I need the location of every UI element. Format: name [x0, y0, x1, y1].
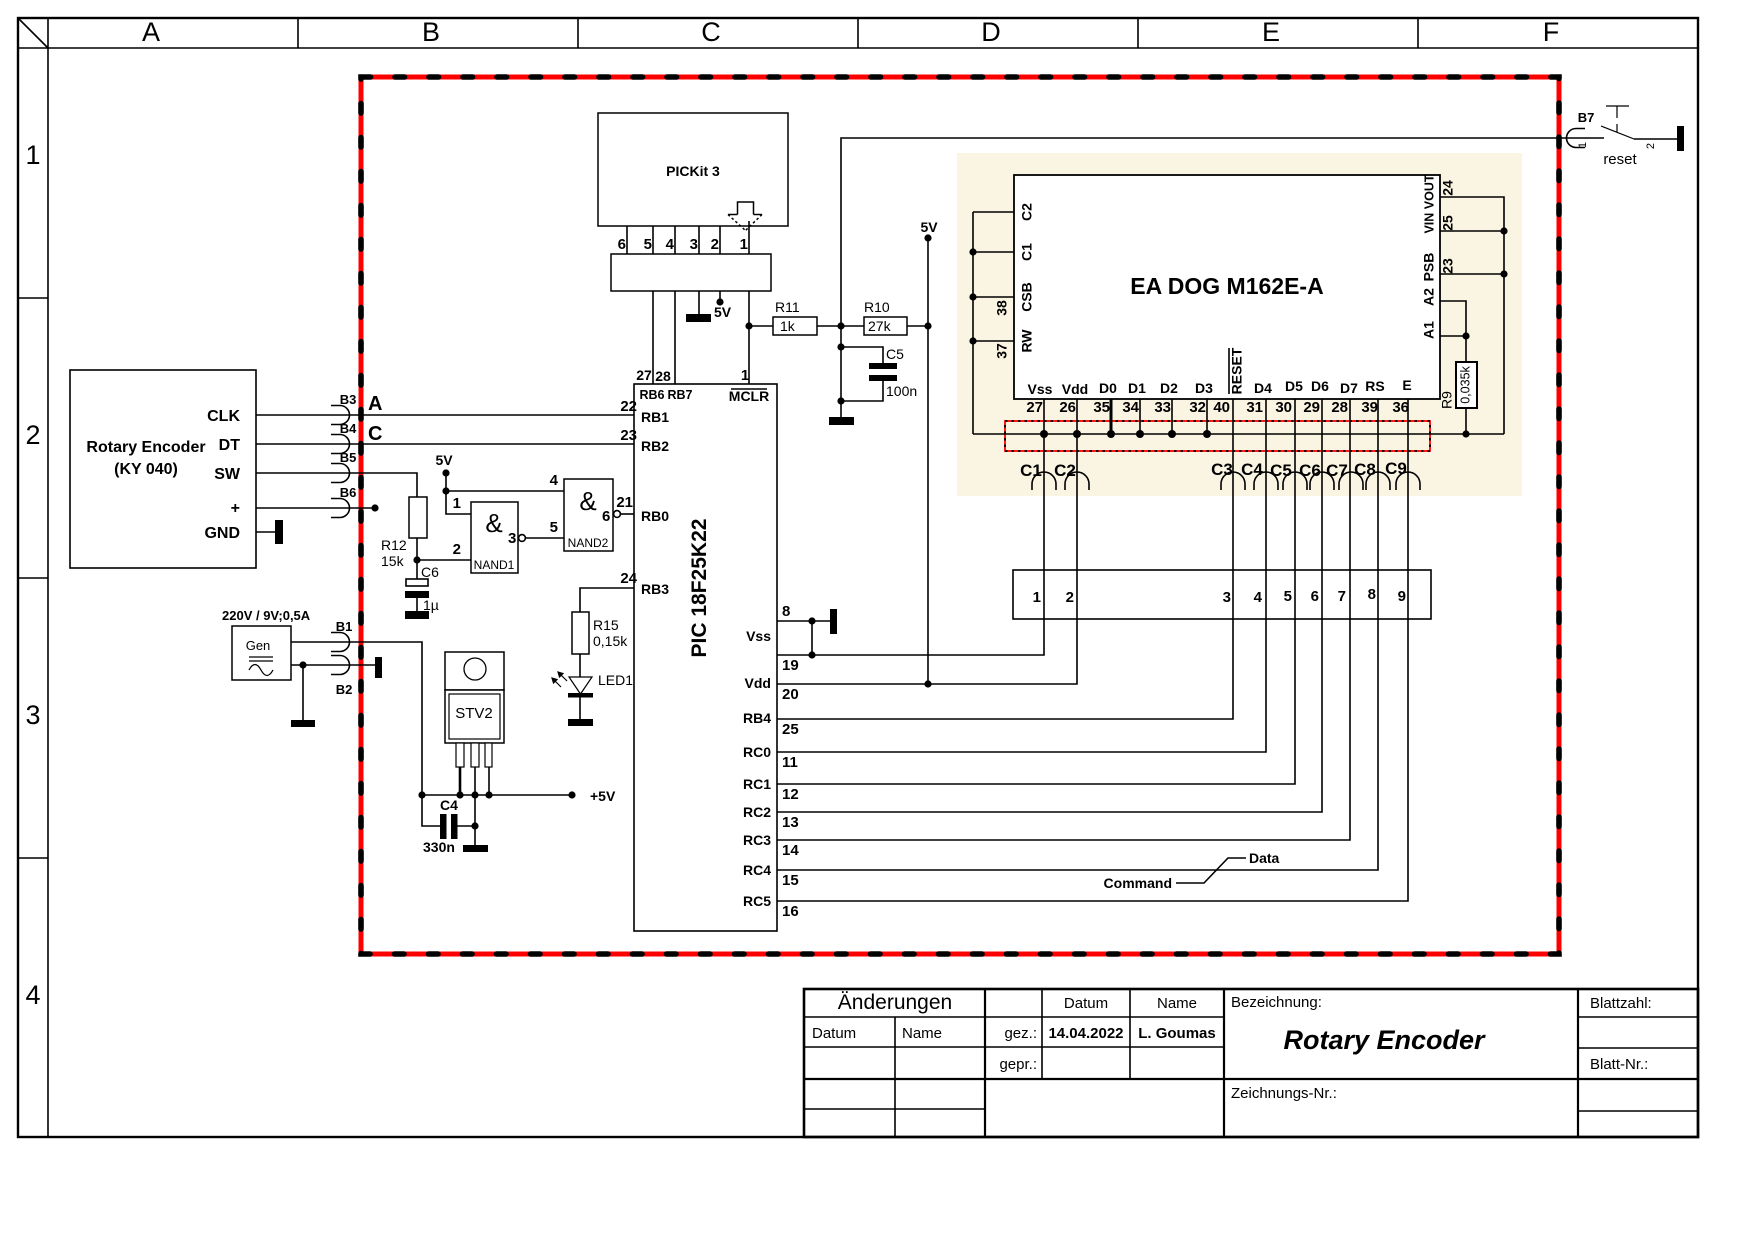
junction VIN: [1500, 227, 1507, 234]
wire B1 net to STV2 input: [291, 642, 422, 795]
wire C1 pin: [973, 251, 1014, 253]
svg-text:1: 1: [741, 367, 749, 384]
svg-text:4: 4: [1254, 589, 1263, 606]
wire C6 to ground: [416, 598, 418, 612]
svg-text:Vss: Vss: [1028, 381, 1053, 397]
svg-text:RC1: RC1: [743, 776, 771, 792]
NAND gate NAND1: [453, 495, 526, 573]
svg-text:2: 2: [25, 420, 40, 450]
svg-text:RB4: RB4: [743, 710, 771, 726]
wire R9 to bus: [1465, 408, 1467, 434]
svg-text:RC4: RC4: [743, 862, 771, 878]
svg-text:C1: C1: [1020, 461, 1042, 480]
connector strip 1-9: [1013, 570, 1431, 619]
svg-text:28: 28: [655, 368, 671, 384]
svg-text:16: 16: [782, 903, 799, 920]
junction pin19: [808, 651, 815, 658]
junction Vdd 5V rail: [924, 680, 931, 687]
ground C5: [829, 417, 854, 425]
svg-text:23: 23: [1440, 258, 1456, 274]
svg-text:5: 5: [1284, 588, 1292, 605]
svg-text:2: 2: [711, 236, 719, 253]
pushbutton B7 reset: [1567, 129, 1585, 148]
svg-text:2: 2: [453, 541, 461, 558]
connector B3: [331, 406, 350, 425]
svg-text:&: &: [485, 508, 502, 538]
resistor R12: [409, 497, 427, 538]
wire pin23 PSB: [1440, 273, 1504, 275]
svg-text:1µ: 1µ: [423, 597, 439, 613]
ground C4: [463, 845, 488, 852]
svg-text:C: C: [368, 423, 382, 445]
junction B2/gnd: [299, 661, 306, 668]
svg-text:C3: C3: [1211, 460, 1233, 479]
wire to C5 top plate: [841, 347, 883, 363]
regulator STV2: [445, 652, 504, 767]
wire RW pin: [973, 340, 1014, 342]
svg-text:+: +: [231, 500, 240, 517]
programmer PICkit 3: [598, 113, 788, 226]
junction bus D2: [1168, 430, 1176, 438]
wire D2 stub: [1171, 399, 1173, 434]
switch blade B7: [1601, 126, 1634, 139]
junction MCLR/R11: [745, 322, 752, 329]
svg-text:2: 2: [1066, 589, 1074, 606]
svg-text:5: 5: [550, 519, 558, 536]
wire B2 net: [291, 664, 375, 666]
wire C2 pin: [973, 211, 1014, 213]
svg-text:6: 6: [1311, 588, 1319, 605]
connector B2: [331, 656, 350, 675]
svg-text:F: F: [1543, 17, 1560, 47]
svg-text:D7: D7: [1340, 380, 1358, 396]
resistor R9: [1456, 362, 1477, 408]
wire A1: [1440, 335, 1466, 337]
junction CSB: [969, 293, 976, 300]
programmer connector strip: [611, 254, 771, 291]
svg-text:34: 34: [1122, 399, 1139, 416]
svg-text:C7: C7: [1326, 461, 1348, 480]
wire R11 to junction: [817, 325, 864, 327]
connector B1: [331, 633, 350, 652]
svg-text:Änderungen: Änderungen: [838, 991, 952, 1014]
svg-text:4: 4: [666, 236, 675, 253]
svg-text:B6: B6: [340, 485, 357, 500]
wire NAND1 out to NAND2 pin5: [526, 537, 564, 539]
svg-text:C2: C2: [1054, 461, 1076, 480]
wire display left gnd bus: [972, 212, 974, 434]
junction leg2: [471, 791, 478, 798]
wire MCLR to R11: [749, 325, 773, 327]
svg-text:15k: 15k: [381, 553, 405, 569]
svg-text:32: 32: [1189, 399, 1206, 416]
svg-text:RB3: RB3: [641, 581, 669, 597]
svg-text:36: 36: [1392, 399, 1409, 416]
svg-text:330n: 330n: [423, 839, 455, 855]
capacitor connector C8: [1366, 472, 1390, 490]
wire reset net to B7: [841, 138, 1604, 326]
svg-text:EA DOG M162E-A: EA DOG M162E-A: [1130, 273, 1323, 299]
junction R9 bus: [1462, 430, 1469, 437]
svg-text:C: C: [701, 17, 721, 47]
wire Vss pin8: [777, 620, 830, 622]
svg-text:RB6: RB6: [639, 388, 664, 402]
svg-text:100n: 100n: [886, 383, 917, 399]
svg-text:Blatt-Nr.:: Blatt-Nr.:: [1590, 1056, 1648, 1073]
junction C5 top: [837, 343, 844, 350]
wire R15 to LED1: [579, 654, 581, 677]
junction R12/C6/NAND1: [413, 556, 420, 563]
svg-text:C4: C4: [440, 797, 458, 813]
svg-text:31: 31: [1246, 399, 1263, 416]
svg-text:Blattzahl:: Blattzahl:: [1590, 995, 1652, 1012]
PICkit pin numbers: [618, 236, 748, 253]
junction C5 bottom: [837, 397, 844, 404]
wire RC4 net to connector 8: [777, 399, 1378, 870]
wire B7 pin2: [1634, 138, 1677, 140]
svg-text:C8: C8: [1354, 460, 1376, 479]
svg-text:29: 29: [1303, 399, 1320, 416]
svg-text:20: 20: [782, 686, 799, 703]
svg-text:Data: Data: [1249, 850, 1280, 866]
terminal bar B2: [375, 657, 382, 678]
wire D3 stub: [1206, 399, 1208, 434]
wire D1 stub: [1139, 399, 1141, 434]
capacitor C5: [869, 363, 897, 369]
display EA DOG M162E-A: [1014, 175, 1440, 399]
svg-text:Datum: Datum: [812, 1025, 856, 1042]
capacitor connector C9: [1396, 472, 1420, 490]
red dotted frame on gnd bus: [1005, 421, 1430, 451]
svg-text:1k: 1k: [780, 318, 796, 334]
wire A2: [1440, 301, 1466, 362]
svg-text:5: 5: [644, 236, 652, 253]
wire C4 to gnd junction: [457, 825, 475, 827]
wire R10 to 5V rail: [907, 325, 928, 327]
plunger B7: [1606, 106, 1629, 132]
svg-text:RB7: RB7: [667, 388, 692, 402]
junction leg3: [485, 791, 492, 798]
title block texts: [812, 991, 1652, 1102]
svg-text:6: 6: [602, 508, 610, 525]
junction PSB: [1500, 270, 1507, 277]
svg-text:RC0: RC0: [743, 744, 771, 760]
svg-text:A2: A2: [1421, 288, 1437, 306]
right side pin names: [743, 628, 771, 909]
wire gnd bus under display: [973, 433, 1504, 435]
display bottom pin numbers: [1026, 399, 1409, 416]
svg-text:Bezeichnung:: Bezeichnung:: [1231, 994, 1322, 1011]
svg-text:39: 39: [1361, 399, 1378, 416]
svg-text:27: 27: [636, 367, 652, 383]
svg-text:B3: B3: [340, 392, 357, 407]
wire STV2 legs: [460, 767, 489, 795]
svg-text:C4: C4: [1241, 460, 1263, 479]
wire Vdd net to connector 2: [777, 399, 1077, 684]
svg-text:1: 1: [25, 140, 40, 170]
junction + net end: [371, 504, 378, 511]
wire C5 bottom plate to gnd net: [841, 381, 883, 401]
connector B5: [331, 464, 350, 483]
svg-text:220V / 9V;0,5A: 220V / 9V;0,5A: [222, 608, 311, 623]
connector B6: [331, 499, 350, 518]
wire RC1 net to connector 5: [777, 399, 1295, 784]
svg-text:40: 40: [1213, 399, 1230, 416]
svg-text:3: 3: [25, 700, 40, 730]
svg-text:3: 3: [1223, 589, 1231, 606]
svg-text:Vdd: Vdd: [745, 675, 771, 691]
svg-text:26: 26: [1059, 399, 1076, 416]
svg-text:D0: D0: [1099, 380, 1117, 396]
svg-text:NAND1: NAND1: [474, 558, 515, 572]
wire encoder GND: [256, 531, 275, 533]
wire 5V rail down to Vdd: [927, 238, 929, 684]
ground C6: [405, 611, 429, 619]
rotary encoder U (KY 040): [70, 370, 256, 568]
wire CSB pin: [973, 296, 1014, 298]
junction R11/R10/reset net: [837, 322, 844, 329]
node 5V PICkit: [716, 298, 723, 305]
svg-text:gez.:: gez.:: [1004, 1025, 1037, 1042]
svg-text:CLK: CLK: [207, 408, 240, 425]
svg-text:R12: R12: [381, 537, 407, 553]
svg-text:21: 21: [616, 494, 633, 511]
wire net A (CLK to RB1): [256, 414, 634, 416]
svg-text:&: &: [579, 486, 596, 516]
svg-text:13: 13: [782, 814, 799, 831]
svg-text:B2: B2: [336, 682, 353, 697]
svg-text:STV2: STV2: [455, 705, 493, 722]
terminal bar encoder GND: [275, 520, 283, 544]
wire leg2 down: [474, 795, 476, 845]
junction B1/C4: [418, 791, 425, 798]
svg-text:15: 15: [782, 872, 799, 889]
svg-text:C5: C5: [1270, 461, 1292, 480]
svg-text:0,035k: 0,035k: [1458, 365, 1472, 403]
svg-text:Datum: Datum: [1064, 995, 1108, 1012]
ground LED1: [568, 719, 593, 726]
svg-text:30: 30: [1275, 399, 1292, 416]
svg-text:PIC 18F25K22: PIC 18F25K22: [688, 519, 711, 658]
svg-text:Name: Name: [902, 1025, 942, 1042]
resistor R11: [773, 317, 817, 335]
svg-text:7: 7: [1338, 588, 1346, 605]
junction C4/gnd: [471, 822, 478, 829]
junction bus D1: [1136, 430, 1144, 438]
wire SW net: [256, 473, 417, 497]
wire RC5 net to connector 9: [777, 399, 1408, 901]
svg-text:37: 37: [994, 343, 1010, 359]
wire D0 stub: [1110, 399, 1113, 434]
wire pin25 VIN: [1440, 230, 1504, 232]
svg-text:L. Goumas: L. Goumas: [1138, 1025, 1216, 1042]
capacitor connector C1: [1032, 472, 1056, 490]
svg-text:24: 24: [1440, 180, 1456, 196]
ground B2: [291, 720, 315, 727]
svg-text:Vdd: Vdd: [1062, 381, 1088, 397]
svg-text:28: 28: [1331, 399, 1348, 416]
svg-text:25: 25: [782, 721, 799, 738]
svg-text:23: 23: [620, 427, 637, 444]
svg-text:35: 35: [1093, 399, 1110, 416]
svg-text:C1: C1: [1019, 243, 1035, 261]
junction 5V/R10: [924, 322, 931, 329]
svg-text:9: 9: [1398, 588, 1406, 605]
LCD cream background panel: [957, 153, 1522, 496]
svg-text:12: 12: [782, 786, 799, 803]
frame column labels: [142, 17, 1559, 47]
svg-text:VIN VOUT: VIN VOUT: [1422, 174, 1436, 233]
node +5V: [568, 791, 575, 798]
svg-text:PSB: PSB: [1421, 253, 1437, 282]
svg-text:19: 19: [782, 657, 799, 674]
terminal bar Vss: [830, 609, 837, 634]
svg-text:Vss: Vss: [746, 628, 771, 644]
svg-text:C6: C6: [1299, 461, 1321, 480]
svg-text:14.04.2022: 14.04.2022: [1048, 1025, 1123, 1042]
resistor R10: [864, 317, 907, 335]
wire net C (DT to RB2): [256, 443, 634, 445]
wire pin24 VOUT: [1440, 197, 1504, 434]
wire R12 to C6 junction: [416, 538, 418, 580]
svg-text:RC2: RC2: [743, 804, 771, 820]
svg-text:4: 4: [25, 980, 40, 1010]
junction A1/A2: [1462, 332, 1469, 339]
arrow icon on PICkit: [728, 202, 762, 231]
svg-text:Gen: Gen: [246, 638, 271, 653]
wire RB6 from connector: [652, 291, 654, 384]
junction 5V branch: [442, 487, 449, 494]
svg-text:+5V: +5V: [590, 788, 616, 804]
svg-text:3: 3: [508, 530, 516, 547]
wire +5V line: [422, 794, 572, 796]
svg-text:D3: D3: [1195, 380, 1213, 396]
svg-text:4: 4: [550, 472, 559, 489]
svg-text:RS: RS: [1365, 378, 1384, 394]
svg-text:R10: R10: [864, 299, 890, 315]
svg-text:RC5: RC5: [743, 893, 771, 909]
svg-text:C9: C9: [1385, 459, 1407, 478]
svg-text:24: 24: [620, 570, 637, 587]
svg-text:A1: A1: [1421, 321, 1437, 339]
svg-text:SW: SW: [214, 466, 241, 483]
svg-text:E: E: [1262, 17, 1280, 47]
svg-text:1: 1: [1577, 142, 1589, 148]
wire NAND2 out to RB0: [620, 513, 634, 515]
svg-text:(KY 040): (KY 040): [114, 461, 178, 478]
junction bus Vss: [1040, 430, 1048, 438]
svg-text:27k: 27k: [868, 318, 892, 334]
junction bus D0: [1107, 430, 1115, 438]
svg-text:RC3: RC3: [743, 832, 771, 848]
svg-text:5V: 5V: [920, 219, 938, 235]
ground PICkit pin3: [686, 314, 711, 322]
svg-text:D6: D6: [1311, 378, 1329, 394]
LED LED1: [552, 672, 633, 698]
red/black dashed schematic border: [361, 77, 1559, 954]
wire pin2 to 5V: [719, 291, 721, 302]
svg-text:RESET: RESET: [1229, 347, 1245, 394]
wire Vss net to connector 1: [777, 399, 1044, 655]
svg-text:NAND2: NAND2: [568, 536, 609, 550]
wire RB4 net to connector 3: [777, 399, 1233, 719]
capacitor connector C4: [1254, 472, 1278, 490]
svg-text:GND: GND: [204, 525, 240, 542]
svg-text:gepr.:: gepr.:: [999, 1056, 1037, 1073]
svg-text:33: 33: [1154, 399, 1171, 416]
svg-text:C5: C5: [886, 346, 904, 362]
svg-text:11: 11: [782, 754, 798, 771]
svg-text:B7: B7: [1578, 110, 1595, 125]
svg-text:RB0: RB0: [641, 508, 669, 524]
svg-text:A: A: [368, 393, 382, 415]
svg-text:CSB: CSB: [1019, 282, 1035, 312]
svg-text:B: B: [422, 17, 440, 47]
capacitor connector C2: [1065, 472, 1089, 490]
junction pin8: [808, 617, 815, 624]
capacitor connector C3: [1221, 472, 1245, 490]
wire to ground: [840, 401, 842, 418]
capacitor C4: [440, 814, 447, 839]
svg-text:8: 8: [782, 603, 790, 620]
svg-text:reset: reset: [1603, 151, 1637, 168]
svg-text:B5: B5: [340, 450, 357, 465]
svg-text:C6: C6: [421, 564, 439, 580]
svg-text:D2: D2: [1160, 380, 1178, 396]
svg-text:D1: D1: [1128, 380, 1146, 396]
svg-text:C2: C2: [1019, 203, 1035, 221]
wire RC2 net to connector 6: [777, 399, 1322, 812]
wire 5V to NAND pins: [446, 473, 471, 514]
svg-text:Name: Name: [1157, 995, 1197, 1012]
wire RB3 to R15: [580, 588, 634, 612]
wire down to C4: [422, 795, 440, 826]
wire RC0 net to connector 4: [777, 399, 1266, 752]
svg-text:2: 2: [1645, 143, 1657, 149]
wire pin8 to pin19: [811, 621, 813, 655]
svg-text:R11: R11: [775, 299, 800, 315]
wire LED1 to ground: [579, 697, 581, 719]
junction RW: [969, 337, 976, 344]
svg-text:25: 25: [1440, 215, 1456, 231]
svg-text:RW: RW: [1019, 329, 1035, 353]
svg-text:Zeichnungs-Nr.:: Zeichnungs-Nr.:: [1231, 1085, 1337, 1102]
svg-text:MCLR: MCLR: [729, 388, 769, 404]
svg-text:Rotary Encoder: Rotary Encoder: [86, 439, 205, 456]
svg-text:6: 6: [618, 236, 626, 253]
svg-text:1: 1: [453, 495, 461, 512]
svg-text:3: 3: [690, 236, 698, 253]
svg-text:B1: B1: [336, 619, 353, 634]
wire RB7 from connector: [674, 291, 676, 384]
wire + net: [256, 507, 375, 509]
svg-text:RB1: RB1: [641, 409, 669, 425]
svg-text:D: D: [981, 17, 1001, 47]
resistor R15: [572, 612, 589, 654]
IC PIC 18F25K22: [634, 384, 777, 931]
svg-text:E: E: [1402, 377, 1411, 393]
NAND gate NAND2: [564, 479, 620, 551]
wire 5V to NAND2 pin4: [446, 490, 564, 492]
connector B4: [331, 435, 350, 454]
svg-text:Rotary Encoder: Rotary Encoder: [1283, 1025, 1486, 1055]
frame row labels: [25, 140, 40, 1010]
svg-text:38: 38: [994, 300, 1010, 316]
wire RC3 net to connector 7: [777, 399, 1350, 840]
svg-text:R15: R15: [593, 617, 619, 633]
wire to NAND1 pin2: [417, 559, 471, 561]
display bottom pin names: [1028, 377, 1412, 397]
